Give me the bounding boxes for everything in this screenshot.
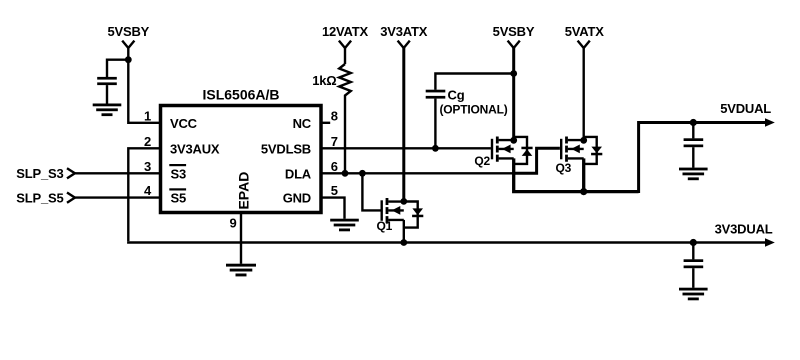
svg-text:S3: S3	[171, 166, 187, 181]
svg-text:4: 4	[144, 183, 152, 198]
svg-text:8: 8	[331, 108, 338, 123]
svg-text:Cg: Cg	[448, 87, 465, 102]
diode Q2 body diode	[514, 137, 533, 164]
power flag 5VSBY (right)	[493, 24, 535, 48]
ground (C2)	[679, 168, 708, 181]
wire EPAD pin 9 to ground	[240, 214, 242, 264]
wire C3 to ground	[692, 268, 694, 288]
svg-text:5VATX: 5VATX	[565, 24, 605, 39]
transistor Q3 (N-channel MOSFET)	[556, 137, 584, 175]
svg-text:S5: S5	[171, 191, 187, 206]
pin 8 NC stub	[321, 122, 330, 124]
power flag 5VATX	[565, 24, 605, 48]
svg-text:1kΩ: 1kΩ	[312, 73, 336, 88]
op-amp/IC U1 ISL6506A/B body	[161, 106, 322, 213]
svg-text:1: 1	[144, 108, 151, 123]
node Q3 drain / 5VATX	[580, 137, 587, 144]
wire Cg bottom to 5VDLSB	[434, 99, 436, 149]
svg-text:Q3: Q3	[556, 161, 572, 175]
wire 3V3ATX to Q1 drain	[402, 47, 405, 202]
capacitor C3	[684, 259, 704, 268]
node Q2 drain / 5VSBY	[510, 137, 517, 144]
svg-text:VCC: VCC	[170, 116, 198, 131]
wire node to capacitor C2	[692, 123, 694, 139]
output arrow 5VDUAL	[765, 118, 775, 127]
wire DLA (pin 6)	[321, 172, 514, 174]
svg-text:SLP_S5: SLP_S5	[16, 190, 63, 205]
svg-text:Q2: Q2	[474, 154, 490, 168]
pin label S3 (active low)	[169, 164, 186, 181]
svg-text:GND: GND	[283, 191, 311, 206]
diode Q1 body diode	[404, 202, 424, 228]
pin label S5 (active low)	[169, 188, 186, 205]
node Cg / 5VDLSB junction	[432, 145, 439, 152]
svg-text:3V3ATX: 3V3ATX	[380, 24, 427, 39]
node Q3 source / rail	[580, 188, 587, 195]
input port SLP_S5	[16, 190, 75, 205]
wire 3V3DUAL rail	[127, 241, 766, 243]
wire riser up to 5VDUAL line	[639, 123, 766, 194]
svg-text:NC: NC	[293, 116, 312, 131]
wire Q3 source to bottom rail	[582, 158, 585, 191]
svg-text:SLP_S3: SLP_S3	[16, 166, 63, 181]
wire SLP_S5 to pin 4	[74, 196, 160, 198]
svg-text:3V3AUX: 3V3AUX	[170, 141, 220, 156]
node 3V3DUAL capacitor tap	[690, 239, 697, 246]
wire R1 to DLA	[344, 96, 346, 173]
power flag 5VSBY (left)	[107, 24, 149, 48]
svg-text:3V3DUAL: 3V3DUAL	[715, 222, 773, 237]
node DLA / Q1 gate junction	[359, 170, 366, 177]
wire Q1 source to 3V3DUAL rail	[403, 220, 405, 243]
wire pin 5 GND to ground	[321, 198, 345, 219]
output arrow 3V3DUAL	[765, 238, 775, 247]
svg-text:5VSBY: 5VSBY	[493, 24, 535, 39]
svg-text:5: 5	[331, 183, 338, 198]
transistor Q1 (N-channel MOSFET)	[377, 198, 404, 233]
svg-text:DLA: DLA	[285, 166, 312, 181]
svg-text:9: 9	[229, 216, 236, 231]
svg-text:2: 2	[144, 134, 151, 149]
wire Cg top	[435, 74, 513, 90]
svg-text:7: 7	[331, 134, 338, 149]
wire C1 to ground	[106, 85, 108, 104]
power flag 3V3ATX	[380, 24, 427, 48]
diode Q3 body diode	[584, 137, 603, 164]
svg-text:ISL6506A/B: ISL6506A/B	[202, 87, 279, 103]
wire node to capacitor C3	[692, 243, 694, 260]
ground (GND pin 5)	[330, 219, 359, 232]
capacitor C2	[684, 138, 704, 147]
input port SLP_S3	[16, 166, 75, 181]
svg-text:3: 3	[144, 159, 151, 174]
svg-text:12VATX: 12VATX	[322, 24, 369, 39]
wire 5VDLSB (pin 7) to Q2 gate	[321, 147, 491, 149]
wire node to capacitor C1	[107, 60, 129, 77]
wire SLP_S3 to pin 3	[74, 172, 160, 174]
ground (C3)	[679, 288, 708, 301]
wire Q2 source down and bottom rail to riser	[514, 158, 639, 191]
node 5VDUAL capacitor tap	[690, 119, 697, 126]
wire 5VATX to Q3 drain	[583, 47, 585, 141]
svg-text:Q1: Q1	[377, 219, 393, 233]
svg-text:(OPTIONAL): (OPTIONAL)	[440, 103, 508, 117]
svg-text:5VSBY: 5VSBY	[107, 24, 149, 39]
wire C2 to ground	[692, 147, 694, 168]
wire Q1 gate to DLA	[362, 173, 381, 210]
ground (EPAD)	[226, 264, 256, 277]
ground (C1)	[93, 104, 122, 117]
svg-text:EPAD: EPAD	[235, 172, 251, 210]
resistor R1 1kohm	[312, 64, 351, 96]
wire DLA to Q3 gate	[512, 148, 560, 173]
svg-text:5VDUAL: 5VDUAL	[720, 101, 771, 116]
wire pin 2 3V3AUX to 3V3DUAL rail	[128, 148, 160, 241]
svg-text:5VDLSB: 5VDLSB	[261, 141, 311, 156]
node DLA / 1k resistor junction	[342, 170, 349, 177]
transistor Q2 (N-channel MOSFET)	[474, 137, 513, 169]
svg-text:6: 6	[331, 159, 338, 174]
node Cg top / 5VSBY junction	[510, 70, 517, 77]
capacitor C1	[97, 77, 117, 85]
node Q1 drain / 3V3ATX	[400, 198, 407, 205]
wire 5VSBY to Q2 drain	[512, 47, 515, 141]
node Q1 source / rail	[400, 239, 407, 246]
node 5VSBY decoupling tap	[125, 56, 132, 63]
power flag 12VATX	[322, 24, 369, 64]
wire 5VSBY down to VCC pin 1	[127, 47, 160, 123]
capacitor Cg	[426, 87, 508, 116]
